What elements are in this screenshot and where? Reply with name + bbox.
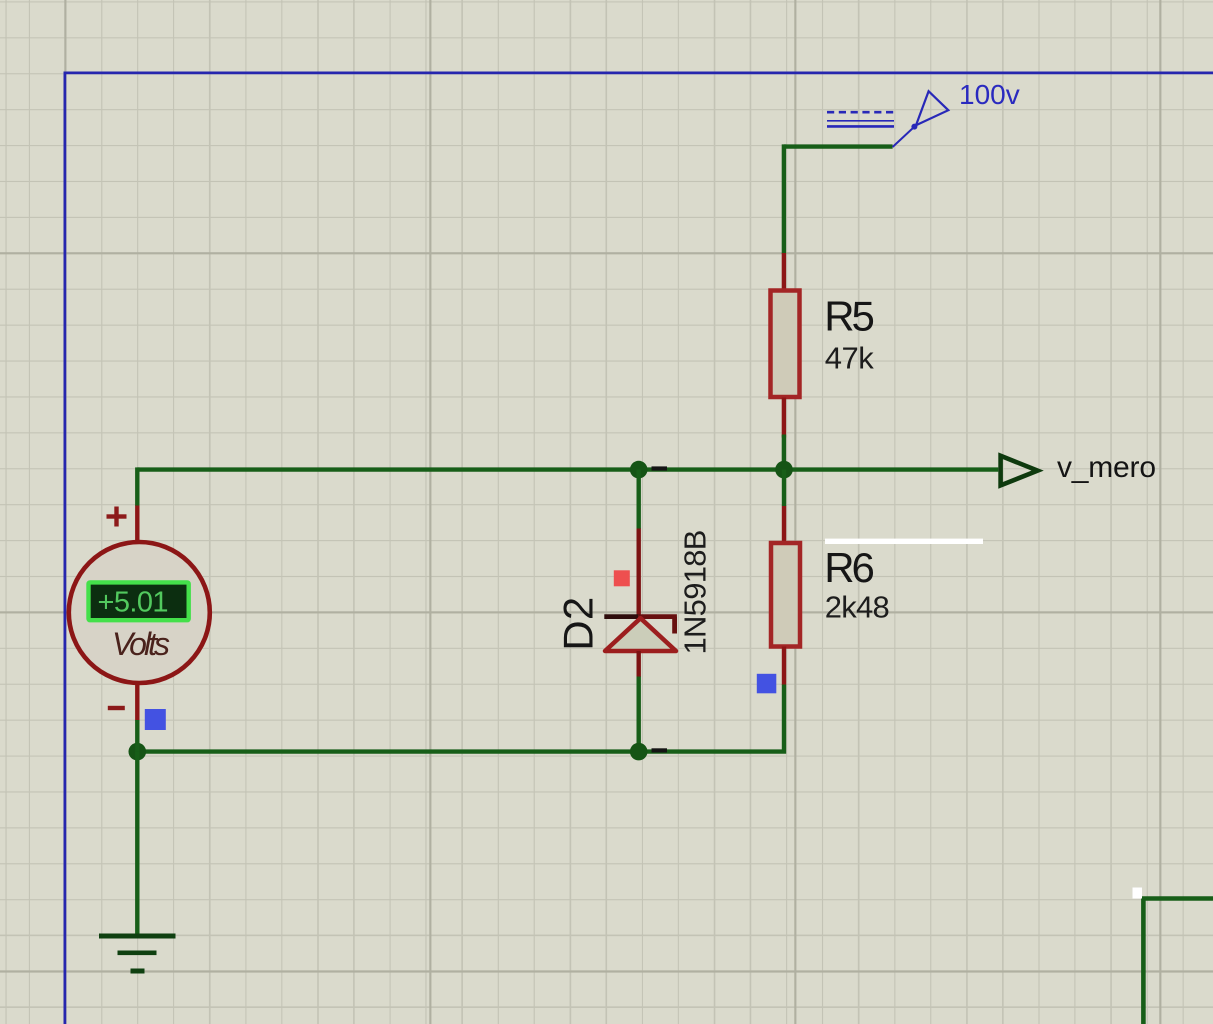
svg-text:1N5918B: 1N5918B bbox=[678, 530, 713, 655]
wire: node to R6 pin bbox=[782, 470, 786, 506]
svg-text:100v: 100v bbox=[959, 79, 1020, 110]
svg-text:Volts: Volts bbox=[112, 626, 170, 662]
wire: bottom rail bbox=[137, 749, 640, 753]
wire: corner down to voltmeter bbox=[135, 467, 139, 506]
voltmeter minus sign bbox=[108, 706, 125, 710]
svg-text:R6: R6 bbox=[824, 544, 875, 591]
wire: rail node down to ground bbox=[135, 752, 139, 934]
wire: top-right from corner to power terminal bbox=[784, 144, 893, 148]
ground symbol bbox=[99, 934, 176, 974]
blue marker square at voltmeter bbox=[145, 709, 166, 730]
svg-text:+5.01: +5.01 bbox=[98, 587, 169, 619]
diode D2 triangle bbox=[605, 618, 676, 651]
white corner mark bbox=[1133, 888, 1143, 899]
blue marker square near R6 bbox=[757, 674, 777, 694]
resistor R5 pin bottom bbox=[782, 398, 786, 438]
wire: main horizontal net v_mero bbox=[137, 467, 998, 471]
wire: voltmeter to rail bbox=[135, 720, 139, 752]
diode D2 pin bottom bbox=[637, 651, 641, 677]
wire: R5 bottom to main node bbox=[782, 435, 786, 470]
pin-end dash right of bottom node bbox=[652, 748, 668, 752]
wire: vertical down to R5 top pin bbox=[782, 144, 786, 253]
voltmeter pin bottom bbox=[135, 683, 139, 721]
diode D2 pin top (dark red) bbox=[637, 529, 641, 617]
svg-text:D2: D2 bbox=[555, 597, 602, 651]
svg-text:v_mero: v_mero bbox=[1057, 451, 1156, 484]
terminal v_mero arrow bbox=[1001, 456, 1038, 486]
wire: node down to D2 bbox=[637, 470, 641, 529]
svg-text:R5: R5 bbox=[824, 293, 875, 340]
wire: D2 to bottom rail bbox=[637, 677, 641, 752]
power terminal 100v symbol bbox=[827, 91, 948, 147]
resistor R6 pin top bbox=[782, 506, 786, 544]
resistor R5 body bbox=[771, 291, 800, 398]
node junction D2 bottom bbox=[630, 743, 648, 761]
red marker square bbox=[614, 570, 630, 586]
svg-text:47k: 47k bbox=[825, 341, 875, 376]
voltmeter body circle bbox=[69, 542, 210, 683]
wire: R6 bottom corner to rail bbox=[637, 685, 784, 752]
resistor R5 pin top (dark red) bbox=[782, 253, 786, 290]
resistor R6 body bbox=[771, 543, 800, 647]
node junction voltmeter bottom bbox=[129, 743, 147, 761]
voltmeter LCD display bbox=[89, 582, 189, 620]
diode D2 cathode bar (zener) bbox=[604, 614, 640, 619]
resistor R6 pin bottom bbox=[782, 647, 786, 686]
pin-end dash right of node bbox=[652, 466, 668, 470]
voltmeter plus sign bbox=[107, 507, 127, 527]
node junction at R column bbox=[775, 461, 793, 479]
node junction at diode column bbox=[630, 461, 648, 479]
white overpaint bar bbox=[825, 539, 983, 544]
wire: bottom-right corner net bbox=[1143, 899, 1213, 1024]
voltmeter pin top (dark red) bbox=[135, 506, 139, 543]
svg-text:2k48: 2k48 bbox=[825, 589, 890, 624]
